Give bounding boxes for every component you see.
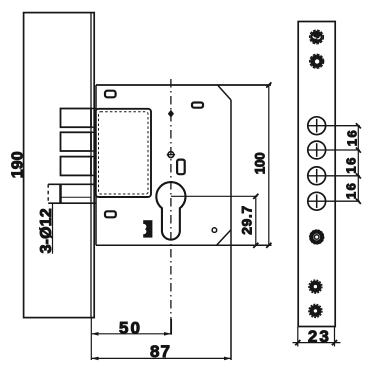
- 87 arrow left: [91, 357, 98, 361]
- slot top-left: [105, 91, 116, 98]
- 3-012 underline: [52, 204, 54, 254]
- follower hub square outer: [96, 109, 152, 197]
- 50 arrow left: [91, 332, 98, 336]
- 23 tick right: [332, 340, 337, 345]
- svg-text:190: 190: [10, 151, 27, 178]
- 87 arrow right: [224, 357, 231, 361]
- faceplate side-view tall rectangle: [24, 13, 95, 318]
- latch bolt head divider: [59, 184, 62, 203]
- latch bolt bottom edge: [48, 202, 96, 204]
- dimension 87 line: [91, 357, 231, 359]
- extension line below faceplate for dims 50/87: [90, 318, 92, 360]
- 100 tick bottom: [266, 243, 271, 248]
- bolt hole C3: [308, 167, 326, 185]
- lock body left edge: [95, 85, 97, 245]
- 50 arrow right: [164, 332, 171, 336]
- svg-text:29.7: 29.7: [239, 206, 255, 235]
- 23-dim left extension: [297, 327, 299, 347]
- 23 tick left: [295, 340, 300, 345]
- C4 cross vertical: [316, 194, 318, 208]
- C3 cross vertical: [316, 169, 318, 183]
- striker plate front view: [298, 22, 335, 327]
- small circle node on centerline: [168, 152, 174, 158]
- small circle bottom-right of body: [212, 228, 217, 233]
- tick at C1: [356, 123, 361, 128]
- slot top-center: [192, 103, 203, 108]
- 16-dim vertical line: [357, 126, 359, 202]
- latch bolt top edge: [48, 183, 96, 185]
- deadbolt 1: [61, 109, 92, 128]
- screw head S4: [309, 280, 322, 293]
- diamond node on centerline: [168, 110, 174, 118]
- bolt hole C4: [308, 192, 326, 210]
- screw head S2: [310, 54, 324, 68]
- euro cylinder profile: [156, 182, 185, 240]
- bottom-right chamfer: [217, 230, 232, 246]
- tick at C4: [356, 199, 361, 204]
- deadbolt 2: [61, 132, 92, 151]
- centerline solid end segment at 50-dim: [170, 319, 172, 335]
- 23-dim line: [293, 342, 341, 344]
- C4 center line: [307, 200, 359, 202]
- slot above cylinder: [177, 160, 185, 175]
- dimension 50 line: [91, 333, 171, 335]
- cylinder-center extension line: [171, 195, 258, 197]
- 29.7 tick bottom: [253, 243, 258, 248]
- lock body top edge + extension to 100-dim: [96, 84, 271, 86]
- C2 cross vertical: [316, 143, 318, 157]
- lock body bottom edge + extension to 100-dim: [96, 244, 272, 246]
- dimension 100 line: [268, 85, 270, 245]
- lock body right edge + 87-dim extension: [230, 100, 232, 360]
- faceplate inner edge line: [90, 13, 92, 318]
- svg-text:16: 16: [344, 130, 359, 146]
- C3 center line: [307, 175, 359, 177]
- follower hub square inner dashed: [99, 112, 149, 194]
- screw head S3: [310, 230, 324, 244]
- 100 tick top: [266, 82, 271, 87]
- tick at C2: [356, 148, 361, 153]
- vertical centerline (dash-dot): [170, 79, 172, 319]
- 29.7 tick top: [253, 194, 258, 199]
- slot bottom-left: [105, 211, 116, 217]
- C2 center line: [307, 149, 359, 151]
- deadbolt 3: [61, 157, 92, 176]
- C1 center line: [307, 125, 359, 127]
- top-right chamfer: [218, 85, 232, 100]
- latch bolt hidden left edge: [47, 184, 49, 203]
- tick at C3: [356, 173, 361, 178]
- svg-text:16: 16: [343, 158, 358, 174]
- 23-dim right extension: [334, 327, 336, 347]
- svg-text:16: 16: [343, 183, 358, 199]
- screw head S1: [310, 30, 324, 44]
- dimension 29.7 line: [255, 196, 257, 245]
- C1 cross vertical: [316, 119, 318, 133]
- latch bolt inner line: [61, 196, 91, 198]
- bolt hole C2: [308, 141, 326, 159]
- cam catch shape: [143, 220, 152, 237]
- svg-text:100: 100: [253, 152, 268, 174]
- screw head S5: [309, 304, 322, 317]
- bolt hole C1: [308, 117, 326, 135]
